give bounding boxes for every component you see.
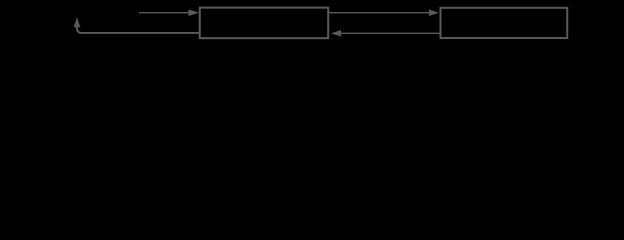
arrowhead into B1 left edge [188,9,199,16]
arrowhead into B2 left edge [429,9,439,16]
wire: return arrow shaft B2 to B1 (lower) [341,32,441,34]
flow diagram: two process boxes with forward and feedback arrows [0,0,624,96]
box B2 (right process box) [441,8,568,38]
wire: arrow shaft B1 to B2 [328,12,429,14]
arrowhead pointing up at top of feedback wire [74,17,81,27]
box B1 (left process box) [200,8,328,39]
wire: feedback from B1 left edge going left then curving up [77,27,200,33]
arrowhead into B1 right edge (pointing left) [331,30,341,37]
wire: input arrow shaft into B1 [139,12,189,14]
